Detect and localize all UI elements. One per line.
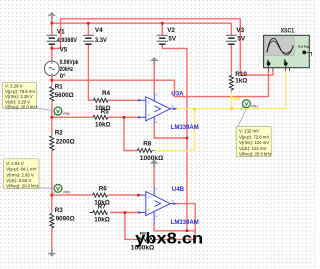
svg-text:V(freq): 20.0 kHz: V(freq): 20.0 kHz — [6, 184, 38, 189]
wire V3 bottom to R10 — [230, 45, 232, 73]
svg-text:PR3: PR3 — [63, 191, 70, 195]
wire V4 bottom to R4 — [88, 45, 93, 101]
svg-text:10kΩ: 10kΩ — [95, 121, 111, 128]
oscilloscope trace channel A — [267, 38, 293, 55]
VCC arrow for U4B — [150, 159, 158, 167]
svg-text:U3A: U3A — [171, 90, 184, 97]
wire U4B VCC stem — [153, 163, 155, 188]
node U4B loop / V2 bus — [186, 230, 189, 233]
probe PR1 — [241, 100, 251, 110]
VCC arrow for U3A — [150, 57, 158, 65]
oscilloscope XSC1 screen — [265, 37, 294, 56]
oscilloscope ext trig terminal — [302, 51, 306, 55]
node Vo / R10 branch — [230, 108, 233, 111]
wire R2 to node PR3 to R3 — [51, 152, 53, 212]
leader line PR3 tooltip — [39, 187, 54, 190]
wire R5 node down to R8 — [124, 117, 137, 150]
wire R1 to node PR2 — [51, 103, 53, 118]
tooltip PR1 — [236, 127, 271, 157]
svg-text:5V: 5V — [237, 35, 246, 42]
svg-text:R4: R4 — [102, 90, 111, 97]
wire U3A output to scope B+ — [177, 71, 286, 109]
svg-text:0.06Vpk: 0.06Vpk — [60, 59, 79, 66]
wire rail2 VCC bus — [52, 22, 232, 24]
svg-text:Ext Trig: Ext Trig — [298, 44, 309, 48]
resistor R3 — [51, 212, 53, 214]
wire V4 top — [87, 23, 89, 35]
battery V3 — [226, 35, 237, 44]
svg-text:5V: 5V — [168, 35, 177, 42]
resistor R7 — [90, 212, 93, 214]
svg-text:V1: V1 — [57, 29, 65, 36]
svg-text:20kHz: 20kHz — [60, 66, 74, 73]
node PR2 junction — [51, 116, 54, 119]
svg-text:3.3V: 3.3V — [95, 37, 108, 44]
leader line PR1 tooltip — [238, 109, 247, 127]
leader line PR2 tooltip — [37, 108, 55, 111]
wire U3A GND pin to V2 bus — [154, 123, 187, 138]
svg-text:V3: V3 — [236, 27, 244, 34]
oscilloscope pin legs A+ A- B+ B- — [269, 66, 290, 72]
svg-text:V(rms): 124 mV: V(rms): 124 mV — [239, 140, 269, 145]
wire R5 to U3A minus input — [108, 116, 139, 118]
svg-text:V2: V2 — [167, 27, 175, 34]
ground arrow bottom-left — [48, 249, 56, 257]
svg-text:R3: R3 — [55, 207, 64, 214]
svg-text:PR2: PR2 — [63, 112, 70, 116]
svg-text:0°: 0° — [60, 72, 67, 80]
node Vo / R8 branch — [193, 108, 196, 111]
node R7 right junction — [124, 211, 127, 214]
svg-text:R5: R5 — [101, 109, 110, 116]
probe PR3 — [52, 185, 62, 195]
resistor R8 — [137, 149, 152, 153]
op-amp U3A LM339AM — [139, 93, 177, 124]
svg-text:V(p-p): 72.8 mV: V(p-p): 72.8 mV — [239, 134, 269, 139]
resistor R6 — [93, 193, 108, 197]
svg-text:10kΩ: 10kΩ — [94, 217, 110, 224]
node V1 bottom / V5 top — [51, 47, 54, 50]
svg-text:R8: R8 — [143, 141, 152, 148]
wire node PR2 to R2 — [51, 117, 53, 133]
wire Vo node down to R8 right — [155, 109, 195, 151]
resistor R5 — [93, 115, 108, 119]
battery V4 — [83, 35, 94, 44]
wire U4B GND loop to output — [154, 204, 195, 231]
probe PR2 — [52, 107, 62, 117]
wire V5 bottom to R1 — [51, 75, 53, 84]
battery V1 — [46, 35, 57, 44]
svg-text:V(dc): 122 mV: V(dc): 122 mV — [239, 146, 267, 151]
oscilloscope XSC1 body — [264, 35, 310, 67]
pin number marks U4B — [148, 188, 174, 217]
node V5 bottom — [51, 79, 54, 82]
wire R6 to U4B plus input — [108, 194, 139, 196]
svg-text:9090Ω: 9090Ω — [56, 215, 75, 222]
wire V2 top — [161, 23, 163, 35]
wire node PR3 to R6 — [52, 194, 93, 196]
oscilloscope terminal B — [284, 62, 288, 66]
tooltip PR2 — [3, 82, 38, 109]
oscilloscope trace channel B — [267, 41, 293, 53]
battery V2 — [157, 35, 168, 44]
svg-text:R1: R1 — [55, 84, 64, 91]
wire V5 output to scope A+ (Vin line) — [52, 71, 269, 97]
resistor R10 — [230, 73, 232, 76]
svg-text:V(rms): 2.65 V: V(rms): 2.65 V — [6, 172, 34, 177]
svg-text:V: 132 mV: V: 132 mV — [239, 129, 259, 134]
svg-text:R2: R2 — [55, 129, 64, 136]
wire V3 top — [230, 23, 232, 35]
wire rail1 V1- bus: bypass + top rail + right drop to scope A- — [52, 19, 273, 75]
node R5 right junction — [123, 116, 126, 119]
svg-text:V4: V4 — [95, 27, 103, 34]
svg-text:XSC1: XSC1 — [281, 27, 295, 34]
wire R4 to U3A plus input — [108, 99, 138, 101]
svg-text:V(freq): 20.0 kHz: V(freq): 20.0 kHz — [5, 105, 37, 110]
node V1 top / rail2 — [51, 22, 54, 25]
svg-text:R7: R7 — [98, 204, 107, 211]
resistor R4 — [94, 98, 109, 102]
wire U3A VCC stem — [153, 62, 155, 93]
wire R7 node down to R9 — [125, 213, 134, 240]
node V2 / rail2 — [161, 22, 164, 25]
svg-text:1000kΩ: 1000kΩ — [140, 155, 164, 162]
svg-text:V(dc): 2.65 V: V(dc): 2.65 V — [6, 178, 31, 183]
wire R10 bottom to Vo node — [230, 92, 232, 109]
AC source V5 — [44, 61, 59, 76]
node R6 right junction — [137, 194, 140, 197]
wire V2 bottom bus down — [162, 45, 187, 231]
svg-text:2200Ω: 2200Ω — [56, 138, 75, 145]
svg-text:U4B: U4B — [172, 186, 185, 193]
svg-text:V(freq): 20.0 kHz: V(freq): 20.0 kHz — [239, 152, 271, 157]
resistor R2 — [51, 134, 53, 136]
wire R7 to U4B minus input — [110, 212, 138, 214]
node PR3 junction — [51, 194, 54, 197]
svg-text:1kΩ: 1kΩ — [235, 78, 247, 85]
pin number marks U3A — [148, 94, 174, 123]
wire node PR2 to R5 — [52, 116, 93, 118]
svg-text:LM339AM: LM339AM — [171, 220, 199, 226]
wire R9 right up to U4B output node — [158, 231, 195, 240]
svg-text:5600Ω: 5600Ω — [55, 92, 74, 99]
wire V1 bottom to V5 top — [51, 45, 53, 62]
power VCC arrow top-left — [48, 12, 56, 20]
svg-text:V5: V5 — [60, 46, 68, 53]
resistor R9 — [134, 238, 139, 240]
svg-text:V(p-p): 84.1 mV: V(p-p): 84.1 mV — [6, 167, 36, 172]
oscilloscope terminal A — [267, 62, 271, 66]
wire R3 to ground — [51, 228, 53, 249]
op-amp U4B LM339AM — [139, 188, 177, 225]
svg-text:4.9368V: 4.9368V — [57, 37, 78, 44]
svg-text:V: 2.64 V: V: 2.64 V — [6, 161, 24, 166]
svg-text:Vo: Vo — [233, 96, 240, 102]
node V4 / rail2 — [87, 22, 90, 25]
svg-text:R6: R6 — [99, 186, 108, 193]
tooltip PR3 — [4, 159, 40, 189]
node U3A gnd / V2 bus — [186, 137, 189, 140]
resistor R1 — [51, 84, 53, 86]
wire VCC arrow to V1 top — [51, 19, 53, 35]
svg-text:ybx8.cn: ybx8.cn — [135, 230, 203, 247]
svg-text:LM339AM: LM339AM — [171, 125, 199, 131]
svg-text:PR1: PR1 — [251, 105, 258, 109]
